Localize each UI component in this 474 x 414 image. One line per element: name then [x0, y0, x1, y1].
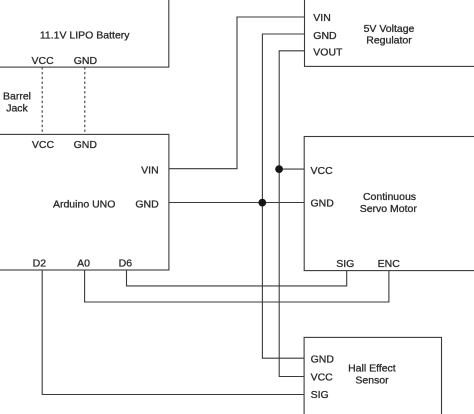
svg-text:GND: GND — [311, 198, 335, 210]
svg-text:GND: GND — [74, 139, 98, 151]
svg-text:VIN: VIN — [313, 12, 331, 24]
svg-text:A0: A0 — [77, 257, 90, 269]
svg-text:Servo Motor: Servo Motor — [360, 203, 418, 215]
Arduino UNO U1 box — [0, 134, 169, 270]
svg-text:VCC: VCC — [311, 372, 334, 384]
svg-text:ENC: ENC — [378, 258, 401, 270]
5V voltage regulator U2 box — [305, 0, 474, 66]
svg-text:VIN: VIN — [141, 165, 159, 177]
svg-text:SIG: SIG — [336, 258, 354, 270]
wire regulator VOUT down to hall VCC — [279, 51, 304, 377]
wire Arduino VIN to regulator VIN — [169, 17, 305, 169]
svg-text:GND: GND — [313, 30, 337, 42]
svg-text:SIG: SIG — [311, 389, 329, 401]
wire GND bus: Arduino GND to servo GND — [169, 202, 304, 204]
svg-text:Regulator: Regulator — [366, 35, 412, 47]
wire Arduino A0 to servo ENC — [85, 270, 389, 302]
svg-text:Jack: Jack — [6, 103, 28, 115]
svg-text:11.1V LIPO Battery: 11.1V LIPO Battery — [40, 30, 130, 42]
continuous servo motor M1 box — [304, 137, 474, 271]
svg-text:GND: GND — [311, 353, 335, 365]
svg-text:Hall Effect: Hall Effect — [348, 362, 396, 374]
svg-text:VCC: VCC — [32, 55, 55, 67]
svg-text:Barrel: Barrel — [3, 91, 31, 103]
battery B1 box — [0, 0, 169, 67]
svg-text:VOUT: VOUT — [313, 47, 343, 59]
svg-text:Arduino UNO: Arduino UNO — [53, 199, 115, 211]
svg-text:GND: GND — [135, 199, 159, 211]
svg-text:VCC: VCC — [311, 165, 334, 177]
svg-text:D6: D6 — [119, 257, 133, 269]
svg-text:Sensor: Sensor — [355, 375, 389, 387]
wire regulator GND down to hall GND — [262, 34, 304, 358]
junction dot GND net — [258, 199, 266, 207]
svg-text:5V Voltage: 5V Voltage — [364, 23, 415, 35]
wire battery GND to barrel jack (dashed) — [84, 67, 86, 134]
wire battery VCC to barrel jack (dashed) — [41, 67, 43, 134]
junction dot VCC net — [275, 165, 283, 173]
svg-text:VCC: VCC — [32, 139, 55, 151]
svg-text:Continuous: Continuous — [363, 191, 416, 203]
svg-text:GND: GND — [74, 55, 98, 67]
hall effect sensor U3 box — [304, 337, 441, 414]
wire Arduino D6 to servo SIG — [127, 270, 347, 286]
svg-text:D2: D2 — [33, 257, 47, 269]
wire VCC branch to servo VCC — [279, 168, 304, 170]
wire Arduino D2 to hall SIG — [42, 270, 304, 395]
